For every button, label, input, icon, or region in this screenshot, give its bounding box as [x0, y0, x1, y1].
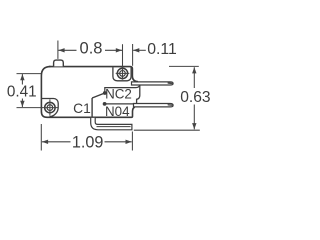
bent pin inner fold line	[97, 126, 131, 128]
pin 2 tip shading	[168, 104, 172, 106]
dim 0.63 line upper segment with up arrow	[193, 67, 195, 88]
NO contact dot	[103, 102, 107, 106]
mounting hole bottom left: outer circle	[45, 102, 55, 112]
dim 0.8 line left segment with arrow	[58, 49, 76, 51]
svg-text:N04: N04	[105, 104, 130, 119]
svg-text:1.09: 1.09	[72, 134, 104, 152]
mounting hole bottom left: inner circle	[47, 105, 53, 111]
mounting hole boss (bottom left)	[42, 99, 59, 117]
dim 0.41 line upper segment with up arrow	[21, 74, 23, 84]
switch symbol: common lead vertical	[91, 98, 93, 117]
mounting hole top right: inner circle	[120, 71, 126, 77]
NO connection line to pin 2	[105, 103, 134, 105]
pin 1 (NC terminal, top right)	[132, 82, 174, 85]
dim 0.41 line lower segment with down arrow	[21, 99, 23, 108]
svg-text:0.63: 0.63	[180, 89, 210, 106]
dim 1.09 line left segment with arrow	[42, 141, 71, 143]
NC connection line up and over NC2 label to pin 1	[105, 85, 140, 93]
svg-text:C1: C1	[73, 101, 91, 116]
dim 1.09 line right segment with arrow	[105, 141, 132, 143]
switch symbol: lever	[92, 93, 105, 98]
dim 0.8/0.11: extension line at body right edge	[132, 44, 134, 66]
mounting hole top right: outer circle	[117, 68, 127, 78]
bent common pin (bottom)	[91, 118, 132, 130]
dim 1.09 right extension line	[131, 132, 133, 151]
plunger button	[54, 60, 64, 66]
dim 0.8 line right segment with arrow	[105, 49, 122, 51]
pin 2 (NO terminal, right)	[134, 104, 174, 107]
dim 0.41 top extension line	[17, 73, 42, 75]
hole cross horizontal (also bottom extension line of 0.41 dim)	[17, 107, 58, 109]
hole cross vertical	[49, 99, 51, 115]
pin 1 tip shading	[168, 82, 172, 84]
NC contact dot	[103, 91, 107, 95]
dim 0.63 top extension line	[169, 65, 199, 67]
mounting hole boss (top right)	[113, 67, 131, 81]
dim 0.8: extension line at button center	[57, 41, 59, 59]
dim 1.09 left extension line	[40, 124, 42, 151]
body left and bottom edge	[41, 67, 134, 118]
svg-text:NC2: NC2	[105, 87, 132, 102]
dim 0.63 line lower segment with down arrow	[193, 105, 195, 130]
hole cross vertical (also extension line of 0.8 dim)	[122, 44, 124, 79]
hole cross horizontal	[116, 72, 130, 74]
svg-text:0.8: 0.8	[80, 40, 103, 58]
svg-text:0.41: 0.41	[7, 84, 37, 101]
dim 0.63 bottom extension line	[134, 129, 200, 131]
svg-text:0.11: 0.11	[147, 41, 177, 58]
dim 0.11 leader arrow	[133, 49, 146, 51]
switch body outline	[49, 67, 138, 82]
right-side step between pin 1 and pin 2	[137, 85, 140, 103]
